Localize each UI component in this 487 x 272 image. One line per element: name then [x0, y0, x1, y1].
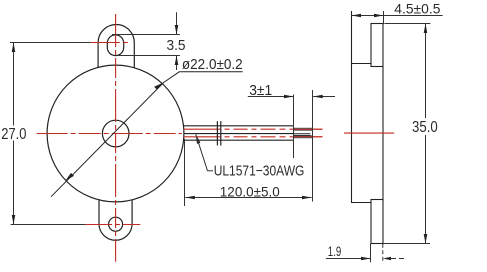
dim 27.0 bottom extension line [11, 224, 86, 226]
dim 4.5 arrow left [352, 14, 362, 18]
dim 120 arrow left [185, 196, 195, 200]
diameter arrow upper-right [154, 83, 164, 90]
dim 1.9 extension line left [370, 244, 372, 263]
dim 3.5 upper tail [176, 12, 178, 34]
side view: case top edge [351, 63, 372, 65]
front view: center sound hole [102, 120, 129, 147]
bare conductor 1 [294, 128, 313, 131]
dim 3.5 arrow up [175, 56, 179, 66]
dim 3+-1 line right part [313, 96, 335, 98]
dim 4.5 line and text underline [352, 15, 443, 17]
svg-text:120.0±5.0: 120.0±5.0 [220, 183, 280, 199]
side view: tab top edge [371, 23, 384, 25]
dim 120 extension line left [184, 139, 186, 206]
leader diagonal [196, 134, 208, 171]
dim 3+-1 line left part [248, 96, 294, 98]
side view red centerline [344, 132, 394, 134]
leader tick [208, 170, 214, 172]
dim 3.5 lower tail [176, 56, 178, 71]
dim 27.0 arrow up [12, 43, 16, 53]
top hole horizontal centerline (red) [91, 42, 128, 44]
dim 35 line lower [425, 135, 427, 244]
side view: plate right edge [382, 24, 384, 244]
svg-text:27.0: 27.0 [1, 126, 26, 143]
diameter arrow lower-left [65, 173, 74, 181]
dim 4.5 right extension upper [383, 11, 385, 23]
side view: plate left edge lower [370, 200, 372, 244]
horizontal centerline of circle (red dash-dot) [37, 133, 182, 135]
vertical centerline (red dash-dot) [115, 14, 117, 262]
conductor 1 red overshoot [294, 128, 323, 130]
diameter diagonal line [51, 83, 164, 197]
dim 27.0 line upper [13, 43, 15, 126]
dim 3+-1 arrow right-pointing [284, 95, 294, 99]
dim 27.0 top extension line [10, 42, 91, 44]
dim 1.9 dashed tail [391, 258, 405, 260]
diameter leader underline [179, 71, 242, 73]
bottom hole horizontal centerline (red) [85, 224, 140, 226]
dim 120 arrow right [302, 196, 312, 200]
top mounting ear outline [98, 24, 134, 67]
top ear slot hole [107, 35, 123, 56]
bottom ear hole [109, 217, 123, 231]
side view: plate left edge upper [370, 24, 372, 67]
bottom mounting ear outline [99, 200, 132, 240]
dim 1.9 arrow right-pointing [361, 257, 371, 261]
conductor gap line upper [294, 133, 311, 135]
front view: buzzer body circle [47, 65, 184, 202]
svg-text:3.5: 3.5 [167, 37, 186, 54]
dim 3+-1 arrow left-pointing [313, 95, 323, 99]
dim 35 line upper [425, 24, 427, 119]
wire insulation top line [184, 125, 294, 127]
bare conductor 2 [294, 135, 313, 138]
wire divider middle line [184, 133, 294, 135]
wire 1 red centerline [184, 128, 323, 130]
dim 3+-1 extension line right [312, 90, 314, 202]
wire break mark right [220, 121, 222, 145]
dim 35 arrow down [424, 234, 428, 244]
dim 35 arrow up [424, 24, 428, 34]
dim 3.5 bottom extension line [118, 55, 180, 57]
dim 27.0 line lower [13, 141, 15, 225]
svg-text:35.0: 35.0 [412, 119, 438, 136]
conductor gap line lower [294, 134, 311, 136]
svg-text:1.9: 1.9 [328, 244, 342, 259]
dim 35 top extension line [384, 23, 430, 25]
side view: ear under-edge top [371, 66, 383, 68]
side view: tab bottom edge [371, 243, 384, 245]
dim 1.9 leader line [326, 258, 371, 260]
leader arrow to wire [196, 134, 201, 144]
svg-text:UL1571−30AWG: UL1571−30AWG [214, 162, 305, 179]
side view: case left edge with extension [351, 11, 353, 203]
dim 3+-1 extension line left [293, 95, 295, 159]
dim 4.5 arrow right [374, 14, 384, 18]
dim 27.0 arrow down [12, 215, 16, 225]
dim 1.9 arrow left-pointing [383, 257, 391, 261]
svg-text:3±1: 3±1 [249, 82, 272, 99]
dim 1.9 extension line right dashed [382, 244, 384, 262]
wire break mark left [216, 121, 218, 145]
diameter leader elbow [164, 72, 180, 83]
side view: case bottom edge [351, 202, 372, 204]
dim 3.5 arrow down [175, 25, 179, 35]
dim 3.5 top extension line [112, 34, 180, 36]
svg-text:4.5±0.5: 4.5±0.5 [394, 1, 440, 17]
dim 120 line [185, 197, 311, 199]
dim 35 bottom extension line [384, 243, 430, 245]
svg-text:ø22.0±0.2: ø22.0±0.2 [182, 56, 243, 73]
wire insulation bottom line [184, 139, 294, 141]
conductor 2 red overshoot [294, 136, 323, 138]
side view: ear under-edge bottom [371, 199, 383, 201]
wire 2 red centerline [184, 136, 323, 138]
